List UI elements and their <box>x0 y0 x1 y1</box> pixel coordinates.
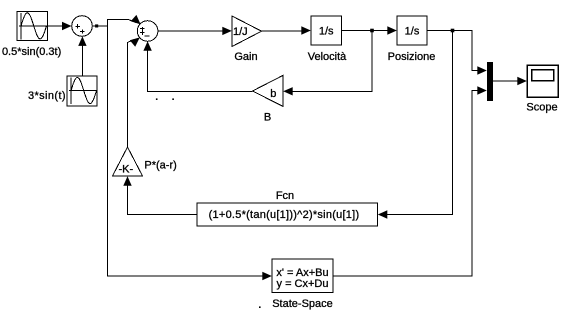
annotation dot 1 <box>156 98 158 100</box>
wire S1 to sum1 <box>48 25 65 27</box>
scope block <box>527 65 558 97</box>
arrowhead into Velocita <box>301 26 311 34</box>
svg-text:P*(a-r): P*(a-r) <box>144 160 176 172</box>
arrowhead into mux input 1 <box>477 66 487 74</box>
wire Fcn output to P gain input <box>128 185 198 215</box>
label Velocita <box>308 51 347 63</box>
label Fcn <box>276 190 294 202</box>
annotation dot 2 <box>172 98 174 100</box>
svg-text:0.5*sin(0.3t): 0.5*sin(0.3t) <box>2 46 61 58</box>
gain triangle 1/J <box>232 16 262 47</box>
label State-Space <box>272 298 333 310</box>
mux bar <box>487 62 493 101</box>
label B <box>264 112 271 124</box>
arrowhead into mux input 2 <box>477 86 487 94</box>
wire mux to Scope <box>493 80 518 82</box>
arrowhead into B <box>283 87 293 95</box>
svg-text:Velocità: Velocità <box>308 51 347 63</box>
svg-text:b: b <box>270 88 276 100</box>
sum junction U1 (+ +) <box>72 16 93 37</box>
svg-text:Fcn: Fcn <box>276 190 294 202</box>
wire sum2 output to Gain <box>158 30 224 32</box>
arrowhead into Posizione <box>387 26 397 34</box>
sine source block S1 (0.5*sin(0.3t)) <box>17 12 48 41</box>
wire branch down to State-Space input <box>107 26 263 276</box>
sine source block S2 (3*sin(t)) <box>67 76 97 106</box>
integrator block 1/s Velocita <box>311 16 342 45</box>
wire P*(a-r) gain output up into sum2 (+) <box>128 40 135 148</box>
wire branch up-over into sum2 top (+) <box>107 19 135 26</box>
arrowhead into P gain bottom <box>123 176 131 186</box>
wire State-Space output to mux input 2 <box>333 91 478 277</box>
gain triangle -K- (P*(a-r)) pointing up <box>113 147 143 176</box>
sum junction U2 (+ + -) <box>137 21 158 42</box>
svg-text:(1+0.5*(tan(u[1]))^2)*sin(u[1]: (1+0.5*(tan(u[1]))^2)*sin(u[1]) <box>209 209 360 221</box>
wire position down to Fcn input <box>386 32 453 215</box>
svg-text:B: B <box>264 112 271 124</box>
svg-text:1/s: 1/s <box>319 26 334 38</box>
svg-text:1/J: 1/J <box>233 26 248 38</box>
junction dot on Posizione output <box>451 29 455 33</box>
state-space block <box>272 259 333 293</box>
wire Posizione output to mux input 1 <box>427 31 478 71</box>
arrowhead into Scope <box>517 77 527 85</box>
label Posizione <box>388 51 436 63</box>
Fcn block <box>197 203 378 226</box>
arrowhead into sum1 bottom <box>78 36 86 46</box>
label 0.5*sin(0.3t) <box>2 46 61 58</box>
wire S2 up to sum1 <box>81 44 83 76</box>
arrowhead into sum1 left <box>62 22 72 30</box>
B feedback wire from Velocita junction down to B input <box>291 32 372 91</box>
svg-text:3*sin(t): 3*sin(t) <box>28 90 66 102</box>
label 3*sin(t) <box>28 90 66 102</box>
annotation dot 3 <box>259 306 261 308</box>
arrowhead into sum2 lower-left <box>130 37 140 46</box>
arrowhead into State-Space <box>262 272 272 280</box>
svg-text:Scope: Scope <box>526 102 557 114</box>
arrowhead into Gain <box>222 27 232 35</box>
wire Velocita to Posizione <box>342 30 390 32</box>
arrowhead into sum2 upper-left <box>131 15 141 25</box>
wire Gain to Velocita <box>262 30 304 32</box>
svg-text:Gain: Gain <box>234 51 257 63</box>
junction dot after sum1 <box>95 24 98 27</box>
wire sum1 output <box>92 25 107 27</box>
label Gain <box>234 51 257 63</box>
label Scope <box>526 102 557 114</box>
integrator block 1/s Posizione <box>397 16 427 45</box>
svg-text:y = Cx+Du: y = Cx+Du <box>277 278 329 290</box>
arrowhead into sum2 bottom <box>143 41 151 51</box>
arrowhead into Fcn <box>378 210 388 218</box>
svg-text:State-Space: State-Space <box>272 298 333 310</box>
svg-text:Posizione: Posizione <box>388 51 436 63</box>
svg-text:-K-: -K- <box>118 164 133 176</box>
label P*(a-r) <box>144 160 176 172</box>
gain triangle b (B) pointing left <box>253 76 283 107</box>
wire B feedback up into sum2 (-) <box>148 49 253 91</box>
svg-text:1/s: 1/s <box>405 26 420 38</box>
junction dot on Velocita output <box>370 29 374 33</box>
